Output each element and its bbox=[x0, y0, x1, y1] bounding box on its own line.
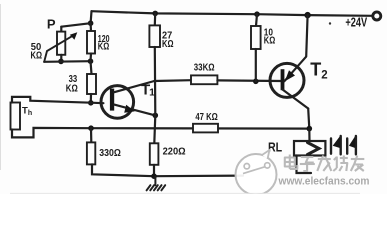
wire relay coil bottom lead bbox=[297, 156, 312, 174]
wire emitter rail to 47K to relay bbox=[91, 127, 309, 130]
wire T2 collector down bbox=[308, 109, 309, 129]
电 bbox=[285, 158, 295, 167]
wire 120K top stub bbox=[89, 23, 92, 31]
wire bottom rail to relay logo bbox=[154, 175, 243, 178]
wire pot bottom bbox=[44, 60, 90, 63]
ground bbox=[147, 177, 166, 191]
wire 27K bottom to T1 collector node and down to emitter node bbox=[154, 47, 157, 115]
wire 330 bottom elbow bbox=[92, 164, 154, 176]
transistor T2 bbox=[270, 63, 304, 97]
svg-text:47 KΩ: 47 KΩ bbox=[195, 112, 217, 123]
speck bbox=[329, 22, 331, 24]
transistor T1 bbox=[101, 86, 134, 119]
wire collector node to 33K bbox=[154, 79, 191, 82]
svg-text:+24V: +24V bbox=[345, 14, 367, 29]
wire relay coil stub bbox=[308, 129, 310, 141]
node 330 top bbox=[88, 125, 94, 131]
svg-text:220Ω: 220Ω bbox=[163, 146, 186, 157]
node 120K bottom bbox=[88, 58, 94, 64]
wire 220 bottom stub bbox=[153, 165, 155, 176]
node ground bbox=[151, 173, 157, 179]
node relay top bbox=[307, 126, 313, 132]
node pot bottom bbox=[58, 59, 64, 65]
watermark logo bbox=[236, 150, 277, 195]
wire top +24V rail bbox=[92, 11, 373, 16]
svg-text:www.elecfans.com: www.elecfans.com bbox=[278, 175, 370, 187]
terminal +24V bbox=[373, 12, 381, 20]
wire pot bottom stub bbox=[60, 55, 62, 62]
wire 10K top stub bbox=[256, 14, 257, 26]
svg-text:KΩ: KΩ bbox=[264, 35, 276, 46]
svg-text:KΩ: KΩ bbox=[162, 39, 174, 50]
svg-text:KΩ: KΩ bbox=[31, 51, 43, 62]
scan edge artifacts bbox=[0, 4, 2, 170]
wire emitter to 220 bbox=[154, 115, 155, 143]
发 bbox=[318, 158, 331, 160]
wire 330 top stub bbox=[90, 128, 93, 142]
resistor 27K bbox=[149, 25, 160, 47]
wire 33K bottom stub bbox=[90, 94, 92, 103]
wire 27K top stub bbox=[154, 13, 157, 25]
relay contact 1 bbox=[330, 139, 332, 154]
svg-text:P: P bbox=[47, 17, 56, 32]
potentiometer wiper arrow bbox=[44, 35, 73, 62]
node T1 emitter bbox=[153, 113, 159, 119]
relay coil RL bbox=[294, 141, 325, 156]
watermark chinese glyphs bbox=[285, 155, 365, 172]
svg-text:330Ω: 330Ω bbox=[99, 148, 121, 159]
resistor 33K vertical bbox=[87, 74, 96, 94]
node base T1 bbox=[88, 100, 94, 106]
resistor 120K bbox=[87, 31, 95, 54]
node T2 rail bbox=[304, 12, 310, 18]
resistor 33K horizontal bbox=[191, 75, 217, 84]
thermistor Th body bbox=[11, 103, 21, 130]
resistor 10K bbox=[251, 26, 261, 49]
wire 10K bottom bbox=[255, 49, 257, 81]
wire Th bottom lead bbox=[12, 128, 91, 137]
烧 bbox=[336, 157, 338, 169]
relay contact 2 bbox=[346, 139, 348, 154]
node pot/120K top bbox=[88, 20, 94, 26]
node 10K bottom bbox=[253, 79, 259, 85]
wire 120K bottom stub bbox=[89, 54, 92, 62]
svg-text:KΩ: KΩ bbox=[66, 83, 78, 94]
wire Th top lead bbox=[12, 97, 103, 103]
node 10K rail bbox=[254, 11, 260, 17]
resistor 220 bbox=[150, 143, 159, 165]
友 bbox=[351, 158, 365, 160]
svg-text:KΩ: KΩ bbox=[98, 42, 110, 53]
wire to 33K bbox=[91, 61, 92, 74]
wire rail to T2 emitter bbox=[306, 15, 307, 56]
resistor 47K bbox=[193, 124, 218, 133]
svg-text:33KΩ: 33KΩ bbox=[194, 62, 215, 73]
子 bbox=[301, 156, 314, 158]
wire pot top stub bbox=[60, 27, 62, 32]
wire vertical from rail to pot/120K node bbox=[89, 11, 92, 23]
wire 33K to T2 base bbox=[217, 79, 280, 82]
wire pot top bbox=[61, 23, 90, 27]
svg-text:RL: RL bbox=[268, 139, 282, 154]
potentiometer P body bbox=[57, 32, 65, 55]
resistor 330 bbox=[87, 142, 95, 164]
node 27K rail bbox=[152, 11, 158, 17]
